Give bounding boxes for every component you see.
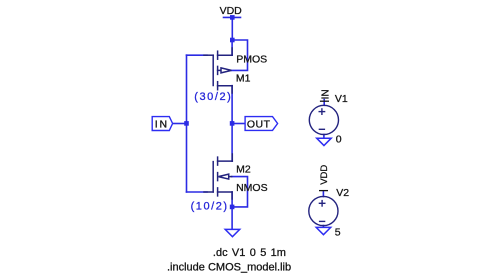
svg-text:V1: V1 — [335, 93, 348, 105]
svg-text:PMOS: PMOS — [236, 53, 267, 65]
svg-text:.include CMOS_model.lib: .include CMOS_model.lib — [167, 262, 291, 274]
svg-text:IN: IN — [155, 118, 169, 130]
svg-text:(30/2): (30/2) — [194, 91, 232, 103]
svg-text:M1: M1 — [236, 73, 251, 85]
svg-text:(10/2): (10/2) — [191, 200, 229, 212]
svg-text:V2: V2 — [336, 187, 349, 199]
svg-text:NMOS: NMOS — [236, 182, 268, 194]
svg-text:OUT: OUT — [247, 118, 271, 130]
svg-text:M2: M2 — [236, 164, 251, 176]
svg-text:VDD: VDD — [220, 5, 243, 17]
svg-text:0: 0 — [336, 134, 342, 146]
svg-text:5: 5 — [335, 227, 341, 239]
svg-text:.dc V1 0 5 1m: .dc V1 0 5 1m — [213, 247, 286, 259]
svg-text:IN: IN — [320, 89, 331, 99]
svg-text:VDD: VDD — [319, 165, 330, 185]
